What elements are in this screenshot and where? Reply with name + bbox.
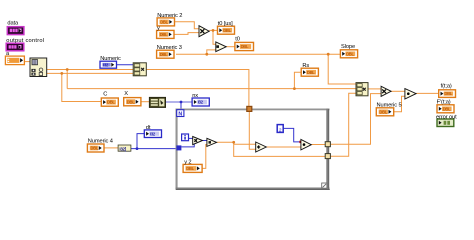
svg-text:data: data (7, 20, 19, 26)
svg-text:Rs: Rs (302, 63, 309, 69)
svg-text:N: N (178, 111, 182, 117)
svg-text:DBL: DBL (186, 166, 194, 171)
svg-text:DBL: DBL (307, 70, 315, 75)
svg-text:y 2: y 2 (184, 160, 191, 166)
svg-text:Numeric 2: Numeric 2 (157, 13, 182, 19)
svg-text:F'(t;a): F'(t;a) (437, 100, 451, 106)
svg-text:DBL: DBL (444, 91, 452, 96)
svg-text:2: 2 (279, 127, 282, 133)
svg-text:Numeric 3: Numeric 3 (157, 45, 182, 51)
svg-text:output control: output control (6, 38, 44, 44)
svg-text:error out: error out (436, 114, 457, 120)
svg-text:C: C (103, 91, 107, 97)
svg-text:t0 [us]: t0 [us] (218, 21, 233, 27)
svg-text:X: X (124, 91, 128, 97)
svg-text:DBL: DBL (160, 52, 168, 57)
svg-text:t0: t0 (235, 36, 240, 42)
svg-text:f(t;a): f(t;a) (441, 83, 452, 89)
svg-text:DBL: DBL (223, 28, 231, 33)
svg-text:DBL: DBL (443, 106, 451, 111)
svg-text:DBL: DBL (107, 100, 115, 105)
svg-text:Numeric: Numeric (100, 56, 121, 62)
svg-text:dt: dt (146, 125, 151, 131)
svg-text:Numeric 4: Numeric 4 (88, 139, 113, 145)
svg-text:y: y (157, 26, 160, 32)
svg-text:Slope: Slope (341, 44, 355, 50)
svg-text:DBL: DBL (160, 20, 168, 25)
svg-text:DBL: DBL (127, 99, 135, 104)
svg-text:DBL: DBL (160, 32, 168, 37)
svg-text:nx: nx (192, 93, 198, 99)
svg-text:DBL: DBL (241, 44, 249, 49)
svg-text:I32]: I32] (119, 146, 126, 151)
svg-text:DBL: DBL (91, 146, 99, 151)
svg-text:DBL: DBL (346, 51, 354, 56)
svg-text:DBL: DBL (379, 109, 387, 114)
svg-text:Numeric 5: Numeric 5 (377, 103, 402, 109)
